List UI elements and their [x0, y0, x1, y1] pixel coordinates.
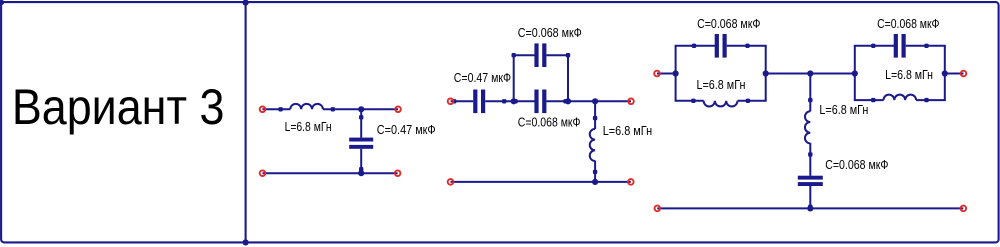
wire top-left (terminal to coil)	[263, 108, 291, 110]
pin L4 top	[808, 98, 812, 102]
svg-text:L=6.8 мГн: L=6.8 мГн	[285, 120, 332, 134]
capacitor C2 series 0.47 plate right	[481, 90, 485, 114]
node top-T	[243, 0, 249, 6]
wire tank1 to tank2	[766, 73, 855, 75]
capacitor C3 top plate right	[542, 43, 546, 67]
svg-text:C=0.068 мкФ: C=0.068 мкФ	[825, 158, 888, 172]
inductor L3 tank1 coil (bulge down)	[704, 101, 738, 107]
svg-text:L=6.8 мГн: L=6.8 мГн	[819, 103, 868, 117]
tank1 top branch left	[675, 45, 717, 47]
inductor L1 coil	[290, 104, 323, 109]
pin C2 right	[502, 99, 506, 103]
node tank2 left	[852, 70, 858, 76]
pin C4 left	[513, 99, 517, 103]
svg-text:L=6.8 мГн: L=6.8 мГн	[697, 78, 746, 92]
tank1 left vertical	[675, 46, 677, 101]
pin L5 right	[924, 98, 928, 102]
pin C2 left	[452, 99, 456, 103]
box left vertical	[513, 55, 515, 101]
svg-text:L=6.8 мГн: L=6.8 мГн	[603, 124, 652, 138]
wire mid branch middle	[809, 143, 811, 176]
terminal c3 out-	[961, 206, 967, 212]
terminal c1 out+	[395, 107, 401, 113]
wire box to inductor node	[546, 100, 631, 102]
tank2 top branch right	[906, 45, 946, 47]
pin L2 bottom	[593, 170, 597, 174]
capacitor C7 tank2 plate left	[894, 34, 898, 58]
node c1 top junction	[358, 106, 364, 112]
capacitor C7 tank2 plate right	[902, 34, 906, 58]
inductor L2 vertical coil	[590, 129, 595, 161]
divider line	[245, 2, 247, 242]
tank1 right vertical	[765, 46, 767, 101]
node L2 top	[592, 98, 598, 104]
svg-text:L=6.8 мГн: L=6.8 мГн	[885, 68, 933, 82]
pin C3 left corner	[512, 53, 516, 57]
node c1 bottom junction	[358, 170, 364, 176]
terminal c1 in+	[260, 107, 266, 113]
tank2 bottom branch right	[916, 99, 946, 101]
wire cap drop lower	[360, 149, 362, 173]
tank2 right vertical	[944, 46, 946, 100]
pin L1 left	[278, 107, 282, 111]
tank2 left vertical	[854, 46, 856, 100]
pin C7 right	[924, 44, 928, 48]
wire C2 to box	[485, 100, 534, 102]
tank1 bottom branch left	[675, 100, 704, 102]
terminal c1 out-	[395, 170, 401, 176]
wire bottom rail c1	[263, 172, 398, 174]
capacitor C5 tank1 plate right	[723, 34, 727, 58]
node box right	[565, 98, 571, 104]
wire bottom rail c2	[451, 181, 631, 183]
pin C1 bottom	[359, 167, 363, 171]
tank2 top branch left	[854, 45, 896, 47]
capacitor C6 mid plate top	[798, 176, 823, 180]
inductor L4 mid vertical coil	[805, 111, 810, 143]
node tank2 right	[942, 70, 948, 76]
wire L2 drop upper	[594, 101, 596, 129]
node mid top	[807, 70, 813, 76]
pin L5 left	[871, 98, 875, 102]
box top branch left	[513, 54, 537, 56]
terminal c1 in-	[260, 170, 266, 176]
svg-text:C=0.068 мкФ: C=0.068 мкФ	[518, 26, 582, 40]
terminal c3 in+	[654, 71, 660, 77]
wire L2 drop lower	[594, 161, 596, 182]
pin C7 left	[871, 44, 875, 48]
wire cap drop upper	[360, 109, 362, 137]
terminal c2 out-	[628, 179, 634, 185]
terminal c2 in+	[448, 99, 454, 105]
svg-text:C=0.068 мкФ: C=0.068 мкФ	[518, 115, 581, 129]
svg-text:Вариант 3: Вариант 3	[12, 79, 225, 135]
capacitor C6 mid plate bottom	[798, 182, 823, 186]
capacitor C1 plate top	[349, 138, 373, 142]
tank2 bottom branch left	[854, 99, 884, 101]
wire top-right (coil to terminal)	[323, 108, 398, 110]
node top-left corner	[0, 0, 4, 5]
capacitor C4 bottom plate right	[542, 90, 546, 114]
wire main-left c3	[657, 73, 677, 75]
tank1 top branch right	[727, 45, 767, 47]
capacitor C1 plate bottom	[349, 145, 373, 149]
node tank1 right	[763, 70, 769, 76]
wire tank2 to terminal	[945, 73, 964, 75]
pin L3 right	[746, 99, 750, 103]
svg-text:C=0.47 мкФ: C=0.47 мкФ	[377, 123, 436, 137]
terminal c2 in-	[448, 179, 454, 185]
capacitor C5 tank1 plate left	[715, 34, 719, 58]
wire main-left (terminal to C2)	[451, 100, 474, 102]
svg-text:C=0.068 мкФ: C=0.068 мкФ	[877, 17, 939, 31]
pin C5 left	[692, 44, 696, 48]
pin L2 top	[593, 116, 597, 120]
svg-text:C=0.47 мкФ: C=0.47 мкФ	[454, 71, 511, 85]
tank1 bottom branch right	[738, 100, 767, 102]
wire mid branch lower	[809, 186, 811, 208]
terminal c3 in-	[655, 206, 661, 212]
pin C6 bottom	[808, 205, 812, 209]
pin C1 top	[359, 115, 363, 119]
capacitor C4 bottom plate left	[534, 90, 538, 114]
inductor L5 tank2 coil (bulge up)	[884, 95, 917, 100]
wire bottom rail c3	[657, 207, 963, 209]
box top branch right	[546, 54, 569, 56]
pin C4 right	[563, 99, 567, 103]
node L2 bottom	[592, 179, 598, 185]
terminal c2 out+	[628, 99, 634, 105]
node box left	[511, 98, 517, 104]
node mid bottom	[807, 205, 813, 211]
svg-text:C=0.068 мкФ: C=0.068 мкФ	[697, 17, 760, 31]
capacitor C2 series 0.47 plate left	[473, 90, 477, 114]
wire mid branch upper	[809, 74, 811, 112]
capacitor C3 top plate left	[534, 43, 538, 67]
pin L3 left	[691, 99, 695, 103]
node bottom-T	[243, 239, 249, 245]
pin C5 right	[745, 44, 749, 48]
pin L4 bottom	[808, 152, 812, 156]
node tank1 left	[673, 70, 679, 76]
terminal c3 out+	[961, 71, 967, 77]
box right vertical	[567, 55, 569, 101]
pin C3 right corner	[566, 53, 570, 57]
pin L1 right	[331, 107, 335, 111]
